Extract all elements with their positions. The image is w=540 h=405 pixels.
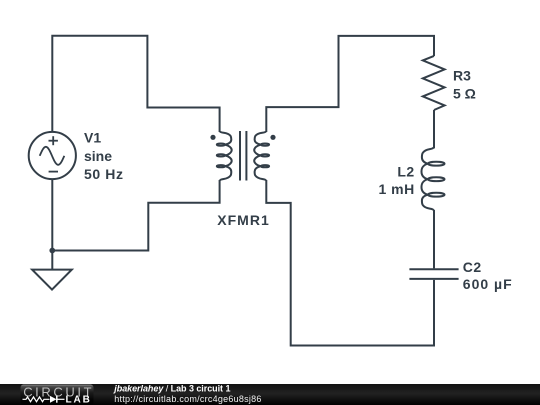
svg-text:XFMR1: XFMR1 <box>217 212 269 228</box>
voltage source V1 <box>29 132 76 179</box>
svg-text:1 mH: 1 mH <box>378 181 414 197</box>
svg-text:L2: L2 <box>397 163 414 179</box>
phase dot primary <box>210 135 215 140</box>
svg-text:V1: V1 <box>84 129 101 145</box>
capacitor C2 <box>409 268 458 270</box>
phase dot secondary <box>270 135 275 140</box>
svg-text:LAB: LAB <box>66 395 92 405</box>
CircuitLab logo plate <box>21 385 94 405</box>
svg-text:50 Hz: 50 Hz <box>84 166 124 182</box>
wire: XFMR1 secondary top to R3 top <box>266 36 434 132</box>
wire: XFMR1 secondary bottom to C2 bottom <box>266 180 434 346</box>
logo resistor zigzag <box>23 397 50 402</box>
wire: V1 top to XFMR1 primary top <box>52 36 219 132</box>
svg-text:C2: C2 <box>463 259 482 275</box>
inductor L2 <box>421 147 444 210</box>
wire: V1 bottom to ground node <box>51 179 53 270</box>
transformer core <box>239 131 241 181</box>
svg-text:600 µF: 600 µF <box>463 276 513 292</box>
resistor R3 <box>423 56 445 110</box>
svg-text:R3: R3 <box>453 67 471 83</box>
transformer XFMR1 primary coil <box>217 131 232 181</box>
transformer XFMR1 secondary coil <box>254 131 269 181</box>
svg-text:sine: sine <box>84 148 112 164</box>
wire: R3 bottom to L2 top <box>433 110 435 148</box>
svg-text:http://circuitlab.com/crc4ge6u: http://circuitlab.com/crc4ge6u8sj86 <box>114 394 261 404</box>
wire: XFMR1 primary bottom to ground node <box>51 180 219 251</box>
logo diode <box>50 396 57 403</box>
footer bar <box>0 384 540 405</box>
svg-text:5 Ω: 5 Ω <box>453 86 476 102</box>
svg-text:jbakerlahey / Lab 3 circuit 1: jbakerlahey / Lab 3 circuit 1 <box>113 384 230 394</box>
junction node dot <box>49 248 55 254</box>
ground <box>32 270 72 290</box>
wire: L2 bottom to C2 top <box>433 210 435 268</box>
